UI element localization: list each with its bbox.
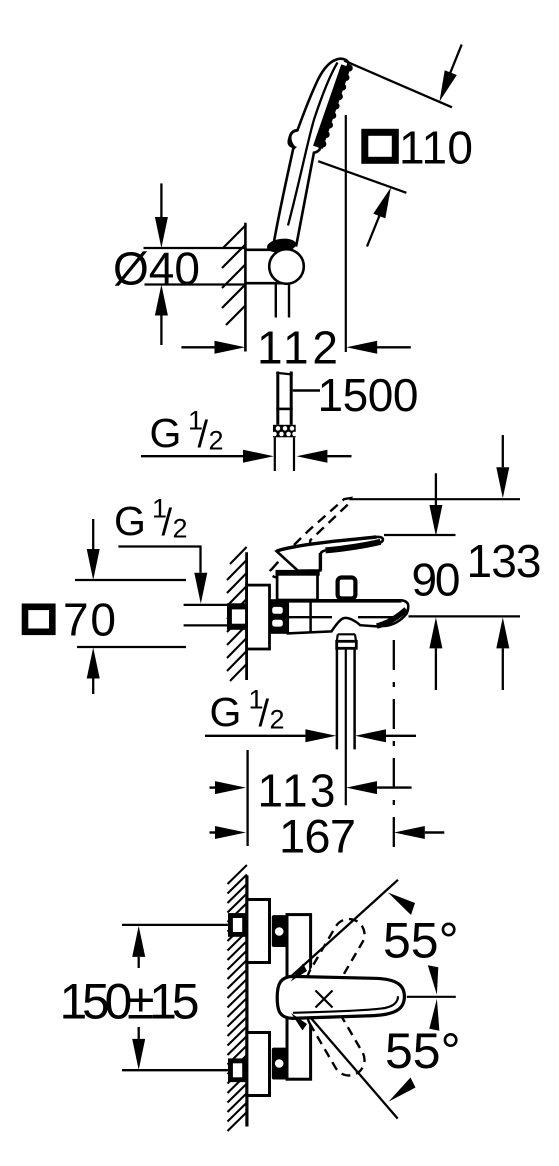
svg-text:G: G <box>114 498 146 544</box>
svg-text:/: / <box>259 693 270 735</box>
svg-text:110: 110 <box>399 121 473 173</box>
svg-text:90: 90 <box>412 554 461 606</box>
svg-text:G: G <box>150 410 182 456</box>
svg-text:1500: 1500 <box>318 369 419 421</box>
svg-text:55°: 55° <box>385 1023 461 1079</box>
svg-text:G: G <box>210 689 242 735</box>
svg-text:133: 133 <box>467 535 542 587</box>
svg-text:167: 167 <box>279 810 356 863</box>
svg-text:150±15: 150±15 <box>60 974 200 1030</box>
svg-text:/: / <box>198 414 209 456</box>
svg-text:2: 2 <box>173 514 188 544</box>
svg-text:2: 2 <box>209 426 224 456</box>
svg-text:112: 112 <box>257 322 338 374</box>
svg-text:Ø40: Ø40 <box>113 243 200 295</box>
svg-text:/: / <box>162 502 173 544</box>
svg-text:2: 2 <box>270 705 285 735</box>
svg-text:55°: 55° <box>383 913 459 969</box>
svg-text:70: 70 <box>63 594 116 646</box>
